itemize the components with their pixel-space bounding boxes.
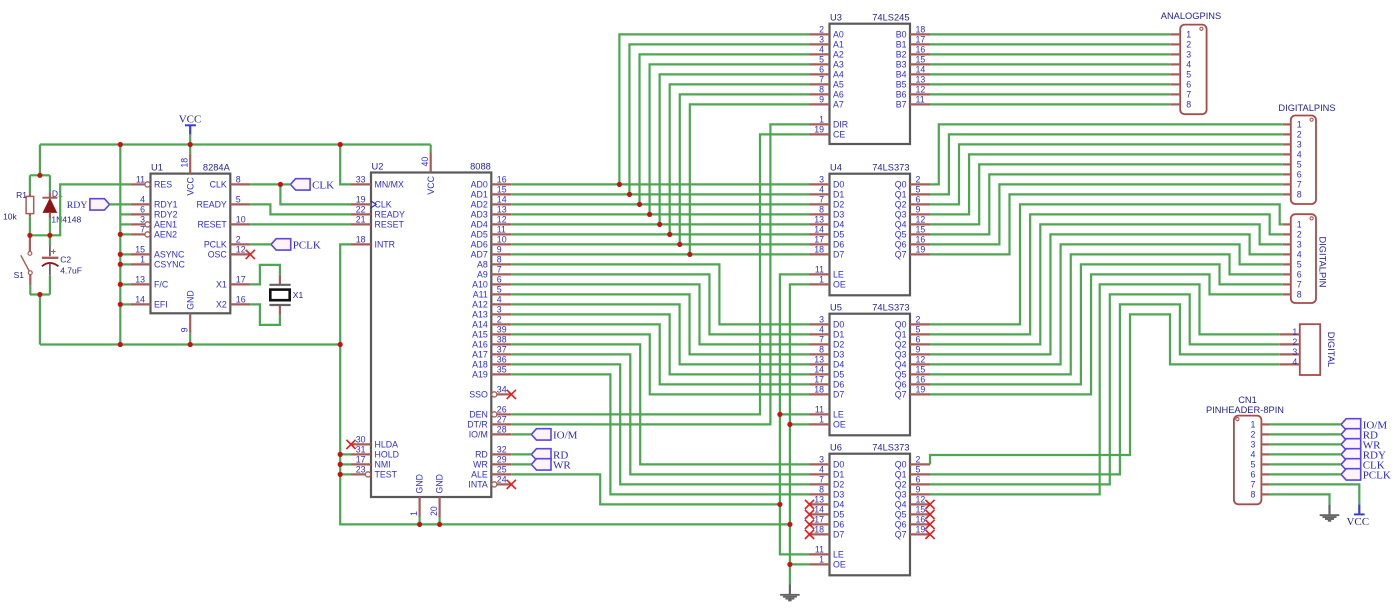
svg-text:5: 5: [1250, 460, 1255, 470]
wire S1/C2 bottom to GND rail: [39, 295, 41, 345]
svg-text:GND: GND: [415, 474, 425, 494]
svg-text:7: 7: [819, 195, 824, 205]
svg-text:Q7: Q7: [895, 250, 907, 260]
junction AD4: [657, 222, 662, 227]
svg-text:4: 4: [819, 325, 824, 335]
svg-text:RD: RD: [475, 450, 488, 460]
wire U6 Q3 to DIGITAL 1: [930, 284, 1280, 494]
svg-text:27: 27: [497, 415, 507, 425]
svg-text:A14: A14: [472, 320, 488, 330]
svg-text:9: 9: [916, 205, 921, 215]
svg-text:13: 13: [135, 275, 145, 285]
svg-text:D6: D6: [833, 380, 844, 390]
svg-text:10: 10: [497, 235, 507, 245]
wire AD5 U2 to U4 D5: [511, 233, 809, 235]
svg-text:7: 7: [1250, 480, 1255, 490]
svg-text:3: 3: [1186, 50, 1191, 60]
svg-text:8: 8: [819, 205, 824, 215]
svg-text:7: 7: [1297, 280, 1302, 290]
wire B6 to ANALOGPINS 7: [930, 93, 1170, 95]
junction R1 bottom: [27, 233, 32, 238]
svg-text:9: 9: [916, 345, 921, 355]
svg-text:7: 7: [819, 75, 824, 85]
wire U5 Q5 to DIGITALPIN 6: [930, 254, 1283, 374]
svg-text:3: 3: [140, 215, 145, 225]
svg-text:A10: A10: [472, 280, 488, 290]
svg-text:8: 8: [819, 485, 824, 495]
svg-text:6: 6: [1186, 80, 1191, 90]
svg-text:A11: A11: [473, 290, 488, 300]
svg-text:11: 11: [136, 175, 145, 185]
svg-text:16: 16: [497, 175, 507, 185]
svg-text:EFI: EFI: [154, 300, 168, 310]
svg-text:2: 2: [1250, 430, 1255, 440]
svg-text:2: 2: [1292, 337, 1297, 347]
svg-text:PCLK: PCLK: [293, 239, 321, 251]
svg-text:40: 40: [420, 157, 430, 167]
svg-text:5: 5: [1297, 160, 1302, 170]
port flag IO/M at CN1: [1341, 419, 1361, 430]
wire A13 to U5 D5: [511, 314, 809, 374]
svg-text:PINHEADER-8PIN: PINHEADER-8PIN: [1206, 405, 1284, 415]
svg-text:D7: D7: [833, 530, 844, 540]
svg-text:RESET: RESET: [197, 220, 227, 230]
wire GND rail bottom left: [40, 343, 340, 345]
svg-text:D1: D1: [833, 470, 844, 480]
svg-text:ASYNC: ASYNC: [154, 250, 185, 260]
svg-text:1: 1: [819, 415, 824, 425]
latch U5 74LS373: [830, 314, 911, 436]
svg-text:7: 7: [819, 335, 824, 345]
wire VCC symbol to rail: [189, 134, 191, 144]
svg-text:Q0: Q0: [895, 460, 907, 470]
wire CLK node to U2 CLK: [280, 184, 351, 204]
svg-text:U4: U4: [830, 163, 842, 173]
svg-text:A4: A4: [833, 70, 844, 80]
svg-text:D3: D3: [833, 490, 844, 500]
junction AD5: [667, 232, 672, 237]
svg-text:29: 29: [497, 455, 507, 465]
wire U5 Q1 to DIGITALPIN 2: [930, 214, 1283, 334]
svg-text:5: 5: [1186, 70, 1191, 80]
svg-text:A16: A16: [472, 340, 488, 350]
svg-text:CE: CE: [833, 130, 845, 140]
svg-text:OSC: OSC: [208, 250, 228, 260]
svg-text:4.7uF: 4.7uF: [60, 266, 82, 276]
svg-text:D0: D0: [833, 460, 844, 470]
wire B0 to ANALOGPINS 1: [930, 33, 1170, 35]
svg-text:74LS245: 74LS245: [872, 13, 909, 23]
wire U6 Q0 to DIGITAL 4: [930, 314, 1280, 464]
svg-text:Q1: Q1: [895, 330, 907, 340]
wire U1 CLK to flag node: [250, 183, 280, 185]
svg-text:VCC: VCC: [426, 175, 436, 194]
connector DIGITAL: [1300, 324, 1320, 375]
wire U4 Q5 to DIGITALPINS 6: [930, 174, 1283, 234]
wire A11 to U5 D3: [511, 294, 809, 354]
wire AD6 branch up to U3 A6: [680, 94, 810, 244]
wire B2 to ANALOGPINS 3: [930, 53, 1170, 55]
wire U1 GND pin to rail: [189, 333, 191, 344]
no-connect INTA: [507, 480, 516, 489]
port flag CLK: [290, 179, 310, 190]
svg-text:12: 12: [497, 215, 507, 225]
svg-text:14: 14: [497, 195, 507, 205]
wire U4 Q2 to DIGITALPINS 3: [930, 144, 1283, 204]
wire A12 to U5 D4: [511, 304, 809, 364]
wire VCC rail to U2 VCC pin: [430, 145, 432, 153]
wire U5 Q6 to DIGITALPIN 7: [930, 264, 1283, 384]
svg-text:10: 10: [236, 215, 246, 225]
no-connect HLDA: [346, 440, 355, 449]
svg-text:B3: B3: [896, 60, 907, 70]
wire CN1 pin 2 to flag: [1270, 433, 1341, 435]
svg-text:Q3: Q3: [895, 210, 907, 220]
wire ASYNC tap: [120, 253, 130, 255]
wire RDY2 tap: [120, 213, 130, 215]
svg-text:ALE: ALE: [471, 470, 488, 480]
microprocessor U2 8088: [371, 173, 491, 498]
svg-text:B5: B5: [896, 80, 907, 90]
svg-text:6: 6: [916, 195, 921, 205]
svg-text:6: 6: [1297, 270, 1302, 280]
svg-text:8: 8: [1186, 100, 1191, 110]
svg-text:3: 3: [819, 175, 824, 185]
svg-text:D1: D1: [52, 189, 63, 199]
wire R1/D1 top rail: [30, 174, 50, 176]
svg-text:16: 16: [916, 515, 926, 525]
svg-text:WR: WR: [553, 459, 571, 471]
svg-text:2: 2: [1297, 130, 1302, 140]
no-connect U6 Q7: [925, 530, 934, 539]
svg-text:Q6: Q6: [895, 240, 907, 250]
wire CN1 pin 1 to flag: [1270, 423, 1341, 425]
svg-text:D0: D0: [833, 320, 844, 330]
svg-text:A9: A9: [477, 270, 488, 280]
port flag PCLK: [271, 239, 291, 250]
wire U5 Q2 to DIGITALPIN 3: [930, 224, 1283, 344]
junction F/C: [118, 282, 123, 287]
wire U4 Q1 to DIGITALPINS 2: [930, 134, 1283, 194]
svg-text:19: 19: [916, 245, 926, 255]
svg-text:22: 22: [356, 205, 366, 215]
svg-text:AD4: AD4: [471, 220, 488, 230]
svg-text:Q3: Q3: [895, 490, 907, 500]
svg-text:5: 5: [916, 185, 921, 195]
svg-text:S1: S1: [14, 270, 25, 280]
wire CN1 pin 6 to flag: [1270, 473, 1341, 475]
port flag CLK at CN1: [1341, 459, 1361, 470]
wire B5 to ANALOGPINS 6: [930, 83, 1170, 85]
svg-text:Q7: Q7: [895, 530, 907, 540]
svg-text:DEN: DEN: [469, 410, 488, 420]
svg-text:B1: B1: [896, 40, 907, 50]
svg-text:RES: RES: [154, 180, 172, 190]
svg-text:25: 25: [497, 465, 507, 475]
svg-text:VCC: VCC: [185, 176, 195, 195]
svg-text:DIGITAL: DIGITAL: [1326, 332, 1336, 367]
svg-text:17: 17: [236, 275, 246, 285]
svg-text:6: 6: [140, 205, 145, 215]
svg-text:A13: A13: [472, 310, 488, 320]
port flag IO/M at U2: [531, 429, 551, 440]
wire A9 to U5 D1: [511, 274, 809, 334]
svg-text:DIGITALPIN: DIGITALPIN: [1318, 237, 1328, 288]
junction U2 GND20: [437, 522, 442, 527]
wire A8 to U5 D0: [511, 264, 809, 324]
svg-text:WR: WR: [473, 460, 488, 470]
svg-text:A3: A3: [833, 60, 844, 70]
svg-text:X1: X1: [216, 280, 227, 290]
wire U1 READY to U2 READY: [250, 204, 351, 214]
svg-text:Q3: Q3: [895, 350, 907, 360]
wire ALE jog down: [511, 474, 780, 504]
wire U4 Q3 to DIGITALPINS 4: [930, 154, 1283, 214]
junction TEST: [338, 472, 343, 477]
svg-text:A19: A19: [472, 370, 488, 380]
wire B3 to ANALOGPINS 4: [930, 63, 1170, 65]
wire F/C tap: [120, 283, 130, 285]
svg-text:13: 13: [814, 355, 824, 365]
svg-text:1: 1: [1186, 30, 1191, 40]
wire CLK node to flag: [280, 183, 290, 185]
wire U4 Q0 to DIGITALPINS 1: [930, 124, 1283, 184]
svg-text:D4: D4: [833, 220, 844, 230]
svg-text:12: 12: [916, 495, 926, 505]
power VCC symbol at CN1: [1358, 504, 1360, 514]
svg-text:13: 13: [497, 205, 507, 215]
junction CSYNC: [118, 262, 123, 267]
junction AD3: [647, 212, 652, 217]
svg-text:5: 5: [1297, 260, 1302, 270]
svg-text:2: 2: [916, 175, 921, 185]
svg-text:AD3: AD3: [471, 210, 488, 220]
svg-text:9: 9: [180, 327, 190, 332]
svg-text:8: 8: [1297, 290, 1302, 300]
svg-text:18: 18: [814, 525, 824, 535]
svg-text:39: 39: [497, 325, 507, 335]
wire U6 Q1 to DIGITAL 3: [930, 304, 1280, 474]
wire AD7 branch up to U3 A7: [690, 104, 810, 254]
svg-text:A1: A1: [833, 40, 844, 50]
svg-text:B4: B4: [896, 70, 907, 80]
wire A19 to U6 D3: [511, 374, 809, 494]
svg-text:17: 17: [356, 455, 366, 465]
no-connect U6 D5: [805, 510, 814, 519]
connector CN1 PINHEADER-8PIN: [1234, 416, 1262, 505]
svg-text:CSYNC: CSYNC: [154, 260, 185, 270]
svg-text:1: 1: [140, 255, 145, 265]
wire RD to flag: [511, 453, 531, 455]
svg-text:A6: A6: [833, 90, 844, 100]
svg-text:D7: D7: [833, 390, 844, 400]
wire NMI to GND vertical: [340, 463, 351, 465]
junction GND rail INTR: [338, 342, 343, 347]
svg-text:Q1: Q1: [895, 190, 907, 200]
wire A17 to U6 D1: [511, 354, 809, 474]
wire AD0 branch up to U3 A0: [619, 34, 809, 184]
svg-text:5: 5: [916, 325, 921, 335]
wire AD0 U2 to U4 D0: [511, 183, 809, 185]
svg-text:19: 19: [916, 385, 926, 395]
svg-text:3: 3: [819, 315, 824, 325]
svg-text:+: +: [51, 247, 56, 257]
svg-text:INTA: INTA: [468, 480, 488, 490]
junction R1/D1 top: [37, 173, 42, 178]
port flag RD at CN1: [1341, 429, 1361, 440]
svg-text:CLK: CLK: [210, 180, 227, 190]
svg-text:AEN1: AEN1: [154, 220, 177, 230]
svg-text:D7: D7: [833, 250, 844, 260]
junction AD0: [617, 182, 622, 187]
wire A15 to U5 D7: [511, 334, 809, 394]
svg-text:A17: A17: [472, 350, 488, 360]
svg-text:8: 8: [497, 255, 502, 265]
svg-text:D0: D0: [833, 180, 844, 190]
svg-text:IO/M: IO/M: [553, 429, 578, 441]
svg-text:D3: D3: [833, 210, 844, 220]
svg-text:31: 31: [356, 445, 366, 455]
svg-text:Q6: Q6: [895, 380, 907, 390]
junction VCC rail MN/MX: [338, 142, 343, 147]
no-connect U6 Q6: [925, 520, 934, 529]
junction AD2: [637, 202, 642, 207]
svg-text:HOLD: HOLD: [375, 450, 399, 460]
junction OE rail U5: [787, 422, 792, 427]
svg-text:CN1: CN1: [1238, 395, 1257, 405]
svg-text:4: 4: [1186, 60, 1191, 70]
svg-text:5: 5: [497, 285, 502, 295]
svg-text:7: 7: [819, 475, 824, 485]
svg-text:4: 4: [819, 45, 824, 55]
svg-text:32: 32: [497, 445, 507, 455]
svg-text:11: 11: [497, 225, 506, 235]
svg-text:B2: B2: [896, 50, 907, 60]
wire OE rail: [790, 284, 810, 584]
svg-text:74LS373: 74LS373: [872, 303, 909, 313]
svg-text:3: 3: [1297, 240, 1302, 250]
svg-text:Q4: Q4: [895, 500, 907, 510]
junction CLK node: [278, 182, 283, 187]
wire WR to flag: [511, 463, 531, 465]
junction GND rail x120: [118, 342, 123, 347]
wire A10 to U5 D2: [511, 284, 809, 344]
wire RDY flag to RDY1: [110, 203, 131, 205]
no-connect U6 Q4: [925, 500, 934, 509]
svg-text:Q6: Q6: [895, 520, 907, 530]
svg-text:24: 24: [497, 475, 507, 485]
svg-text:1: 1: [409, 511, 419, 516]
svg-text:12: 12: [916, 215, 926, 225]
wire AD2 branch up to U3 A2: [640, 54, 810, 204]
junction LE rail U5: [777, 412, 782, 417]
svg-text:8088: 8088: [470, 161, 491, 171]
svg-text:C2: C2: [60, 254, 71, 264]
svg-text:Q2: Q2: [895, 200, 907, 210]
wire AD3 branch up to U3 A3: [650, 64, 810, 214]
no-connect U6 D7: [805, 530, 814, 539]
no-connect OSC: [246, 250, 255, 259]
svg-text:18: 18: [814, 385, 824, 395]
svg-text:1: 1: [1250, 420, 1255, 430]
junction AEN2: [118, 232, 123, 237]
svg-text:1: 1: [819, 275, 824, 285]
svg-text:SSO: SSO: [469, 390, 488, 400]
wire U4 Q7 to DIGITALPINS 8: [930, 194, 1283, 254]
svg-text:74LS373: 74LS373: [872, 443, 909, 453]
connector DIGITALPINS: [1291, 116, 1316, 205]
svg-text:2: 2: [916, 455, 921, 465]
svg-text:A15: A15: [472, 330, 488, 340]
svg-text:RDY: RDY: [67, 200, 88, 211]
svg-text:DIR: DIR: [833, 120, 848, 130]
wire A14 to U5 D6: [511, 324, 809, 384]
wire U4 Q4 to DIGITALPINS 5: [930, 164, 1283, 224]
svg-text:A18: A18: [472, 360, 488, 370]
port flag PCLK at CN1: [1341, 469, 1361, 480]
svg-text:A0: A0: [833, 30, 844, 40]
svg-text:R1: R1: [16, 190, 27, 200]
svg-text:6: 6: [819, 65, 824, 75]
junction VCC rail U1: [188, 142, 193, 147]
latch U6 74LS373: [830, 454, 911, 576]
junction ALE at LE rail: [777, 502, 782, 507]
wire AEN1 tap: [120, 223, 130, 225]
wire U5 Q0 to DIGITALPIN 1: [930, 204, 1283, 324]
svg-text:D2: D2: [833, 200, 844, 210]
no-connect SSO: [507, 390, 516, 399]
svg-text:18: 18: [180, 158, 190, 168]
svg-text:14: 14: [916, 65, 926, 75]
switch S1: [29, 235, 31, 251]
junction OE rail U6: [787, 562, 792, 567]
svg-text:D6: D6: [833, 240, 844, 250]
svg-text:Q4: Q4: [895, 360, 907, 370]
wire AD7 U2 to U4 D7: [511, 253, 809, 255]
svg-text:21: 21: [356, 215, 366, 225]
svg-text:Q2: Q2: [895, 480, 907, 490]
svg-text:2: 2: [236, 235, 241, 245]
wire DEN to U3 CE: [511, 134, 809, 414]
svg-text:IO/M: IO/M: [469, 430, 488, 440]
svg-text:D5: D5: [833, 510, 844, 520]
wire LE rail: [780, 274, 810, 554]
wire DT/R to U3 DIR: [511, 124, 809, 424]
svg-text:CLK: CLK: [312, 179, 334, 191]
wire U5 LE tap: [780, 413, 810, 415]
svg-text:Q4: Q4: [895, 220, 907, 230]
svg-text:3: 3: [497, 305, 502, 315]
svg-text:3: 3: [1297, 140, 1302, 150]
svg-text:X2: X2: [216, 300, 227, 310]
svg-text:NMI: NMI: [375, 460, 391, 470]
svg-text:RDY2: RDY2: [154, 210, 178, 220]
svg-text:B0: B0: [896, 30, 907, 40]
svg-text:A12: A12: [472, 300, 488, 310]
svg-text:1: 1: [819, 115, 824, 125]
wire B1 to ANALOGPINS 2: [930, 43, 1170, 45]
svg-text:11: 11: [815, 265, 824, 275]
svg-text:15: 15: [916, 55, 926, 65]
svg-text:33: 33: [356, 175, 366, 185]
svg-text:8: 8: [819, 345, 824, 355]
svg-text:5: 5: [236, 195, 241, 205]
svg-text:15: 15: [916, 365, 926, 375]
svg-text:HLDA: HLDA: [375, 440, 399, 450]
wire U2 GND1 to rail: [419, 517, 421, 524]
svg-text:D5: D5: [833, 230, 844, 240]
svg-text:READY: READY: [196, 200, 226, 210]
